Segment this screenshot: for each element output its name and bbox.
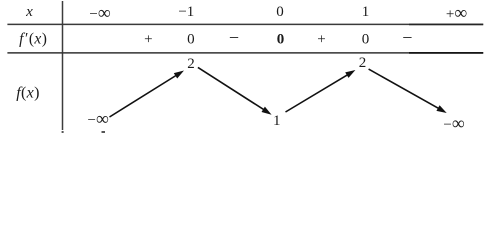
middle horizontal rule <box>7 52 483 54</box>
svg-text:2: 2 <box>187 56 195 72</box>
svg-text:0: 0 <box>187 32 195 48</box>
top horizontal rule darker right segment <box>409 23 483 25</box>
svg-text:x: x <box>25 4 33 20</box>
arrow rising 2 shaft <box>286 74 350 112</box>
arrow rising 2 head <box>345 70 355 78</box>
svg-text:0: 0 <box>276 4 284 20</box>
arrow falling 2 shaft <box>369 69 441 109</box>
svg-text:1: 1 <box>362 4 370 20</box>
svg-text:0: 0 <box>362 32 370 48</box>
svg-text:−: − <box>402 28 412 48</box>
vertical divider line <box>62 1 64 130</box>
svg-text:0: 0 <box>277 32 285 48</box>
svg-text:+: + <box>317 32 325 48</box>
arrow rising 1 shaft <box>110 75 178 118</box>
arrow rising 1 head <box>174 71 184 79</box>
svg-text:+: + <box>144 32 152 48</box>
svg-text:−: − <box>229 28 239 48</box>
svg-text:f′(x): f′(x) <box>19 31 47 48</box>
svg-text:f(x): f(x) <box>16 85 39 102</box>
top horizontal rule <box>7 23 483 25</box>
arrow falling 1 shaft <box>198 67 265 110</box>
arrow falling 2 head <box>436 105 446 113</box>
middle horizontal rule darker right segment <box>409 52 483 54</box>
svg-text:2: 2 <box>359 55 367 71</box>
svg-text:−1: −1 <box>178 4 194 20</box>
bottom edge artifact mark <box>102 131 106 133</box>
svg-text:1: 1 <box>273 113 281 129</box>
bottom edge artifact at divider <box>62 131 64 133</box>
arrow falling 1 head <box>262 107 272 115</box>
